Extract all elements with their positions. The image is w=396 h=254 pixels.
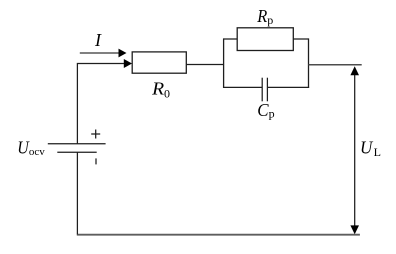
svg-text:R: R — [151, 78, 164, 98]
svg-text:0: 0 — [164, 86, 170, 100]
svg-text:U: U — [360, 138, 373, 158]
svg-text:p: p — [269, 106, 275, 120]
svg-text:ocv: ocv — [29, 146, 45, 158]
svg-text:L: L — [374, 145, 381, 159]
svg-text:U: U — [17, 137, 29, 157]
svg-text:p: p — [267, 13, 273, 27]
svg-text:I: I — [94, 30, 102, 50]
svg-text:R: R — [256, 6, 267, 26]
